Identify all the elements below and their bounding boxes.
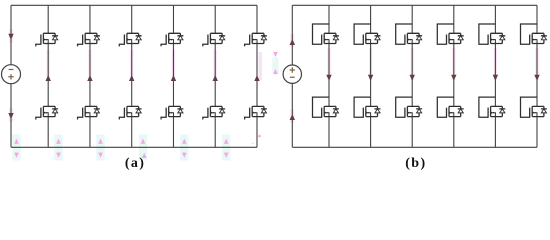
svg-text:(b): (b) [405, 156, 426, 171]
svg-text:(a): (a) [125, 156, 146, 171]
